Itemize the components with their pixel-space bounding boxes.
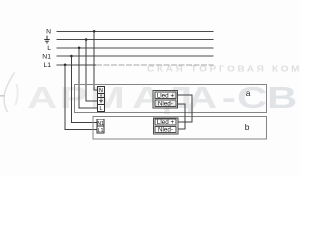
svg-text:L: L [100, 106, 103, 112]
svg-text:Nled-: Nled- [158, 100, 173, 107]
svg-text:N: N [46, 29, 51, 36]
svg-text:L1: L1 [98, 128, 104, 134]
svg-text:N1: N1 [97, 121, 104, 127]
svg-text:Nled-: Nled- [158, 127, 173, 134]
svg-text:N1: N1 [42, 53, 51, 60]
svg-text:N: N [99, 88, 103, 94]
svg-text:a: a [246, 88, 251, 98]
svg-text:L: L [47, 45, 51, 52]
svg-text:L1: L1 [43, 62, 51, 69]
svg-text:Lled +: Lled + [157, 119, 175, 126]
svg-text:Lled +: Lled + [157, 92, 175, 99]
svg-text:b: b [245, 122, 250, 132]
svg-text:СКАЯ ТОРГОВАЯ КОМ: СКАЯ ТОРГОВАЯ КОМ [147, 65, 300, 74]
